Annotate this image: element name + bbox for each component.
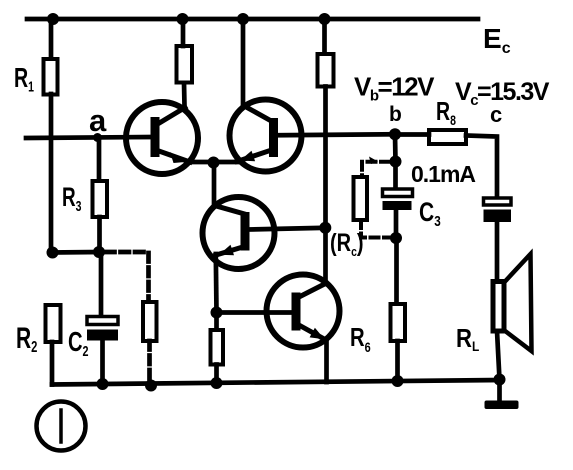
wire Rc resistor down to Rc node and Q4 collector (323, 87, 328, 285)
svg-text:b: b (389, 103, 402, 126)
ground (485, 380, 519, 410)
wire input base line to node a and Q1 (26, 137, 152, 138)
resistor R1 (44, 59, 58, 95)
figure marker circled 1 (37, 402, 86, 451)
svg-text:a: a (89, 103, 107, 138)
wire top rail to Rc resistor (322, 19, 327, 54)
label R2 (16, 323, 38, 356)
transistor Q2 (230, 100, 302, 172)
node junction b branch bottom (390, 232, 402, 244)
transistor Q3 (203, 197, 275, 269)
wire Q4 emitter to rail (324, 340, 329, 383)
speaker RL body (493, 282, 504, 332)
label C2 (68, 327, 89, 360)
label R6 (350, 323, 371, 356)
wire Q4 base line (217, 310, 293, 315)
wire C2 bottom lead (100, 341, 105, 385)
label RL (456, 324, 479, 354)
node junction b branch top (390, 156, 402, 168)
wire Q2 base to node b (277, 132, 395, 138)
node junction top rail / Q1 collector resistor (177, 13, 189, 25)
label R8 (436, 96, 456, 128)
wire dashed resistor bottom lead (147, 341, 152, 386)
wire R8 to node c corner (466, 136, 497, 199)
capacitor C3 (383, 189, 413, 210)
wire top supply rail Ec (27, 17, 478, 22)
node junction top rail / Q2 collector (237, 13, 249, 25)
arrow tick on dashed Rc wire (369, 157, 378, 165)
wire R6 bottom to rail (395, 341, 400, 381)
resistor Rc alternate (dashed position) (354, 177, 368, 220)
wire capacitor to speaker (495, 222, 500, 282)
wire b to R8 (401, 132, 429, 137)
svg-text:Vc=15.3V: Vc=15.3V (455, 78, 550, 109)
svg-text:(Rc): (Rc) (330, 229, 364, 259)
node a (93, 133, 102, 142)
resistor R8 (429, 130, 466, 144)
node b (389, 128, 401, 140)
transistor Q1 (126, 102, 198, 174)
wire junction down to R6 (394, 238, 399, 304)
wire dashed Rc alternate bottom (361, 220, 390, 238)
wire Q1 Q2 emitters junction (188, 160, 238, 165)
wire C3 bottom to lower junction (394, 210, 399, 238)
node junction R1/R2 (47, 247, 59, 259)
wire Q3 base to Rc node (249, 228, 325, 230)
wire emitter junction down to Q3 collector (212, 163, 217, 207)
wire base junction to emitter resistor (214, 313, 219, 331)
label (Rc) (330, 229, 364, 259)
label R1 (14, 63, 34, 95)
resistor Q1 collector load (177, 46, 193, 83)
label R3 (62, 182, 81, 215)
wire dashed to Rc alternate resistor top (362, 162, 389, 177)
wire lower node row (52, 250, 99, 255)
wire R3 bottom lead (97, 217, 102, 252)
wire Q1 collector lead (182, 83, 187, 107)
wire speaker to rail (497, 331, 500, 380)
svg-text:Vb=12V: Vb=12V (354, 72, 435, 105)
node junction Q4 base (211, 307, 223, 319)
resistor R3 (93, 181, 108, 217)
wire node b down (393, 134, 398, 162)
resistor R6 (391, 304, 406, 341)
capacitor output coupling (484, 198, 512, 222)
node junction top rail / Rc branch (319, 13, 331, 25)
node junction rail / C2 (97, 378, 109, 390)
node junction Rc / Q3 base / Q4 collector (319, 222, 331, 234)
wire bottom ground rail (52, 380, 500, 385)
resistor R2 (46, 305, 61, 342)
wire top rail to Q1 collector resistor (181, 19, 186, 46)
node junction rail / R6 (392, 375, 404, 387)
transistor Q4 (267, 275, 340, 348)
wire R1 top lead (49, 19, 54, 59)
label C3 (419, 198, 441, 230)
resistor Rc collector load (318, 54, 334, 87)
node junction top rail / R1 (47, 13, 59, 25)
wire dashed branch from node to feedback resistor (106, 252, 149, 302)
node junction rail / base resistor (211, 377, 223, 389)
wire Q2 collector to top rail (241, 19, 246, 106)
wire R1 bottom lead down to lower node (49, 94, 54, 253)
wire to C3 (393, 162, 398, 191)
node junction rail / dashed resistor (145, 380, 157, 392)
wire R2 bottom lead to ground rail (50, 342, 55, 385)
node junction emitters (208, 157, 220, 169)
svg-text:0.1mA: 0.1mA (411, 161, 475, 187)
wire emitter resistor to rail (214, 365, 219, 384)
wire node a to R3 (97, 138, 102, 182)
wire Q3 emitter down to base junction (213, 254, 218, 313)
capacitor C2 (87, 317, 118, 341)
svg-text:c: c (490, 102, 502, 127)
node junction rail / speaker and ground (494, 374, 506, 386)
resistor Q4 base bias (211, 330, 224, 365)
node junction R3/C2 (93, 246, 105, 258)
resistor feedback (dashed branch) (143, 302, 157, 341)
speaker RL horn (505, 254, 532, 351)
wire C2 top lead (99, 252, 104, 318)
